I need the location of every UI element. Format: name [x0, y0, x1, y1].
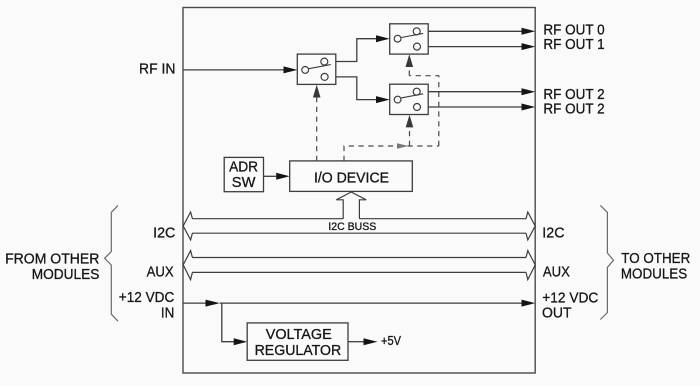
brace FROM OTHER MODULES — [105, 205, 118, 321]
arrowhead on +12 VDC at junction — [206, 300, 220, 307]
control arrowhead into SW3 — [406, 115, 414, 128]
svg-text:ADR: ADR — [229, 159, 258, 176]
arrowhead +12 VDC OUT — [522, 300, 536, 307]
switch SW1 (RF relay) — [297, 54, 336, 84]
wire SW2 output RF OUT 0 — [428, 30, 522, 32]
arrowhead into SW2 — [376, 35, 390, 42]
wire voltage regulator +5V output — [348, 341, 364, 343]
control arrowhead into SW1 — [313, 85, 321, 98]
block arrow from I2C buss into I/O device — [336, 192, 366, 219]
svg-text:MODULES: MODULES — [32, 266, 100, 283]
brace TO OTHER MODULES — [600, 205, 613, 319]
svg-text:+5V: +5V — [381, 334, 402, 348]
svg-text:OUT: OUT — [542, 305, 572, 322]
I2C BUSS double-headed bus arrow — [183, 212, 535, 240]
svg-text:IN: IN — [161, 304, 174, 321]
I/O DEVICE box — [290, 161, 413, 192]
control arrowhead into SW2 — [406, 54, 414, 67]
arrowhead RF OUT 0 — [522, 28, 536, 35]
arrowhead RF OUT 2 (lower) — [522, 104, 536, 111]
module enclosure (outer boundary) — [183, 8, 535, 374]
switch SW3 (RF relay) — [390, 84, 429, 114]
wire RF IN to switch SW1 — [183, 69, 284, 71]
direction arrowhead on dashed control bus — [397, 143, 409, 148]
svg-text:RF OUT 2: RF OUT 2 — [543, 101, 604, 118]
svg-text:RF IN: RF IN — [139, 61, 175, 78]
AUX double-headed bus arrow — [183, 251, 535, 280]
wire SW1 top output to SW2 — [336, 39, 377, 62]
arrowhead into voltage regulator — [234, 338, 248, 345]
VOLTAGE REGULATOR box — [247, 323, 348, 360]
arrowhead into I/O device — [276, 173, 290, 180]
svg-text:I2C: I2C — [153, 225, 175, 242]
svg-text:FROM OTHER: FROM OTHER — [5, 251, 99, 268]
wire SW3 output RF OUT 2 (lower) — [428, 106, 522, 108]
svg-text:AUX: AUX — [147, 264, 174, 281]
svg-text:I2C: I2C — [542, 225, 564, 242]
svg-text:I/O DEVICE: I/O DEVICE — [314, 170, 389, 187]
svg-text:REGULATOR: REGULATOR — [255, 342, 342, 359]
arrowhead into SW1 — [284, 66, 298, 73]
dashed control branch to SW3 — [409, 130, 411, 147]
wire ADR SW to I/O device — [264, 175, 278, 177]
wire +12 VDC feed-through — [183, 302, 522, 304]
svg-text:RF OUT 1: RF OUT 1 — [543, 36, 604, 53]
wire SW2 output RF OUT 1 — [428, 46, 522, 48]
arrowhead into SW3 — [376, 96, 390, 103]
svg-text:TO OTHER: TO OTHER — [621, 250, 690, 267]
svg-text:VOLTAGE: VOLTAGE — [266, 326, 332, 343]
node +12 VDC branch — [222, 303, 234, 342]
wire SW1 bottom output to SW3 — [336, 77, 377, 100]
svg-text:MODULES: MODULES — [621, 266, 687, 283]
dashed control line I/O device to SW1 — [316, 97, 318, 161]
wire SW3 output RF OUT 2 (upper) — [428, 91, 522, 93]
arrowhead RF OUT 1 — [522, 43, 536, 50]
svg-text:SW: SW — [232, 174, 256, 191]
arrowhead +5V — [364, 338, 378, 345]
dashed control line I/O device to SW2 — [344, 69, 439, 161]
arrowhead RF OUT 2 (upper) — [522, 88, 536, 95]
svg-text:I2C BUSS: I2C BUSS — [328, 221, 376, 233]
ADR SW box — [224, 157, 263, 191]
svg-text:AUX: AUX — [543, 264, 570, 281]
switch SW2 (RF relay) — [390, 24, 429, 54]
